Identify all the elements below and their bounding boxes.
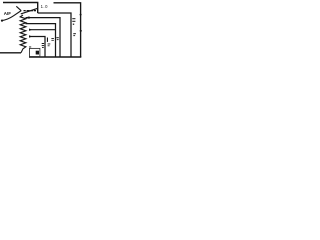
svg-text:1.0: 1.0 xyxy=(41,4,48,9)
svg-text:AIF: AIF xyxy=(4,11,11,16)
